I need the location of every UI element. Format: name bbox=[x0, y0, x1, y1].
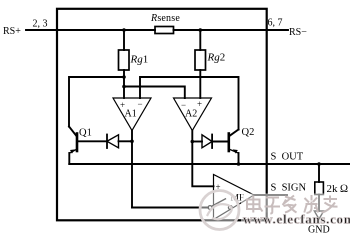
resistor Rsense bbox=[155, 27, 174, 34]
node net1 junction bbox=[122, 75, 126, 79]
svg-text:RS+: RS+ bbox=[3, 26, 21, 37]
ground bbox=[314, 211, 323, 219]
node 2k / S OUT junction bbox=[317, 162, 321, 166]
resistor 2k bbox=[315, 182, 324, 195]
wire Rg1 bottom to A1 + input bbox=[123, 70, 125, 98]
watermark bbox=[200, 191, 350, 230]
node net1 A1+ junction bbox=[122, 85, 126, 89]
wire Rg1 top bbox=[123, 30, 125, 50]
switch contact 1 bbox=[208, 206, 212, 210]
wire MF output S SIGN bbox=[254, 194, 287, 196]
transistor Q1 bbox=[76, 134, 79, 152]
svg-text:Q2: Q2 bbox=[242, 127, 255, 138]
node Rg1 top junction bbox=[122, 28, 126, 32]
wire Q1 collector arm bbox=[69, 127, 77, 137]
svg-text:2k Ω: 2k Ω bbox=[327, 183, 349, 195]
Q2 emitter arrow bbox=[233, 149, 238, 153]
wire Q2 collector arm bbox=[229, 130, 238, 137]
node A2 out / D2 junction bbox=[191, 140, 195, 144]
diode D1 bbox=[107, 135, 119, 148]
node Q2 emitter / S OUT junction bbox=[237, 162, 241, 166]
Q1 emitter arrow bbox=[70, 149, 75, 153]
wire net2 horizontal bbox=[140, 77, 239, 130]
svg-text:Q1: Q1 bbox=[79, 128, 92, 139]
wire net1 left to Q1 collector bbox=[69, 77, 124, 127]
svg-text:RS−: RS− bbox=[289, 27, 307, 38]
wire RS- stub bbox=[266, 29, 288, 31]
svg-text:2, 3: 2, 3 bbox=[33, 19, 48, 30]
switch contact 2 bbox=[228, 206, 232, 210]
svg-text:+: + bbox=[197, 99, 202, 109]
wire Rg2 top bbox=[199, 30, 201, 50]
svg-text:−: − bbox=[138, 99, 143, 109]
wire 2k bottom bbox=[318, 195, 320, 212]
IC outline box bbox=[57, 9, 267, 221]
svg-text:Rsense: Rsense bbox=[150, 13, 180, 24]
svg-text:6, 7: 6, 7 bbox=[268, 18, 283, 29]
switch arm bbox=[212, 199, 226, 206]
svg-text:A2: A2 bbox=[185, 109, 197, 120]
wire D2 to Q2 base bbox=[212, 141, 229, 143]
comparator MF bbox=[214, 175, 255, 220]
op-amp A2 bbox=[174, 98, 212, 131]
svg-text:S SIGN: S SIGN bbox=[271, 183, 307, 194]
wire Rsense to RS- bbox=[174, 29, 267, 31]
wire 2k top bbox=[318, 164, 320, 182]
op-amp A1 bbox=[113, 98, 151, 131]
diode D2 bbox=[202, 135, 212, 148]
wire D2 anode from A2 output bbox=[192, 141, 202, 143]
wire net1 right to A2 - input bbox=[124, 87, 185, 99]
wire S OUT bbox=[69, 163, 350, 165]
svg-text:S OUT: S OUT bbox=[271, 152, 304, 163]
wire RS+ input bbox=[26, 29, 155, 31]
wire A1 feedback to switch bbox=[132, 207, 208, 209]
svg-text:www.elecfans.com: www.elecfans.com bbox=[243, 212, 350, 227]
svg-text:Rg2: Rg2 bbox=[207, 52, 226, 64]
wire Q1 emitter to S OUT bbox=[68, 153, 70, 164]
transistor Q2 bbox=[228, 134, 231, 152]
svg-text:Rg1: Rg1 bbox=[130, 54, 149, 66]
svg-text:A1: A1 bbox=[125, 109, 137, 120]
wire Q1 base to D1 bbox=[77, 140, 107, 142]
resistor Rg2 bbox=[195, 50, 206, 70]
node Rg2 top junction bbox=[199, 28, 203, 32]
node A1 out / D1 junction bbox=[130, 140, 134, 144]
wire A1 output down to feedback bbox=[131, 131, 133, 208]
wire D1 anode to A1 output bbox=[119, 140, 133, 142]
wire Rg2 bottom to A2 + input bbox=[199, 70, 201, 98]
wire A2 output down to MF bbox=[192, 131, 213, 187]
resistor Rg1 bbox=[119, 50, 130, 70]
wire Q2 emitter to S OUT bbox=[238, 153, 240, 164]
